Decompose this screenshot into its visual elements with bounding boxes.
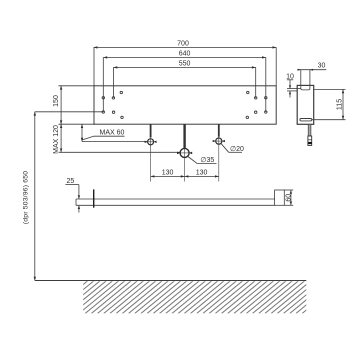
svg-text:640: 640 — [179, 50, 191, 57]
svg-text:150: 150 — [53, 95, 60, 107]
svg-text:25: 25 — [67, 178, 75, 185]
svg-text:700: 700 — [177, 40, 189, 47]
svg-text:130: 130 — [162, 170, 174, 177]
svg-text:550: 550 — [179, 60, 191, 67]
svg-text:MAX 60: MAX 60 — [100, 130, 125, 137]
svg-text:30: 30 — [318, 63, 326, 70]
svg-text:∅20: ∅20 — [230, 146, 244, 153]
svg-text:10: 10 — [286, 73, 294, 80]
svg-text:(dpr 503/96) 650: (dpr 503/96) 650 — [23, 171, 30, 224]
svg-text:60: 60 — [285, 194, 292, 202]
svg-text:∅35: ∅35 — [200, 157, 214, 164]
svg-text:MAX 120: MAX 120 — [53, 125, 60, 154]
svg-text:115: 115 — [337, 99, 344, 110]
svg-text:130: 130 — [196, 170, 208, 177]
